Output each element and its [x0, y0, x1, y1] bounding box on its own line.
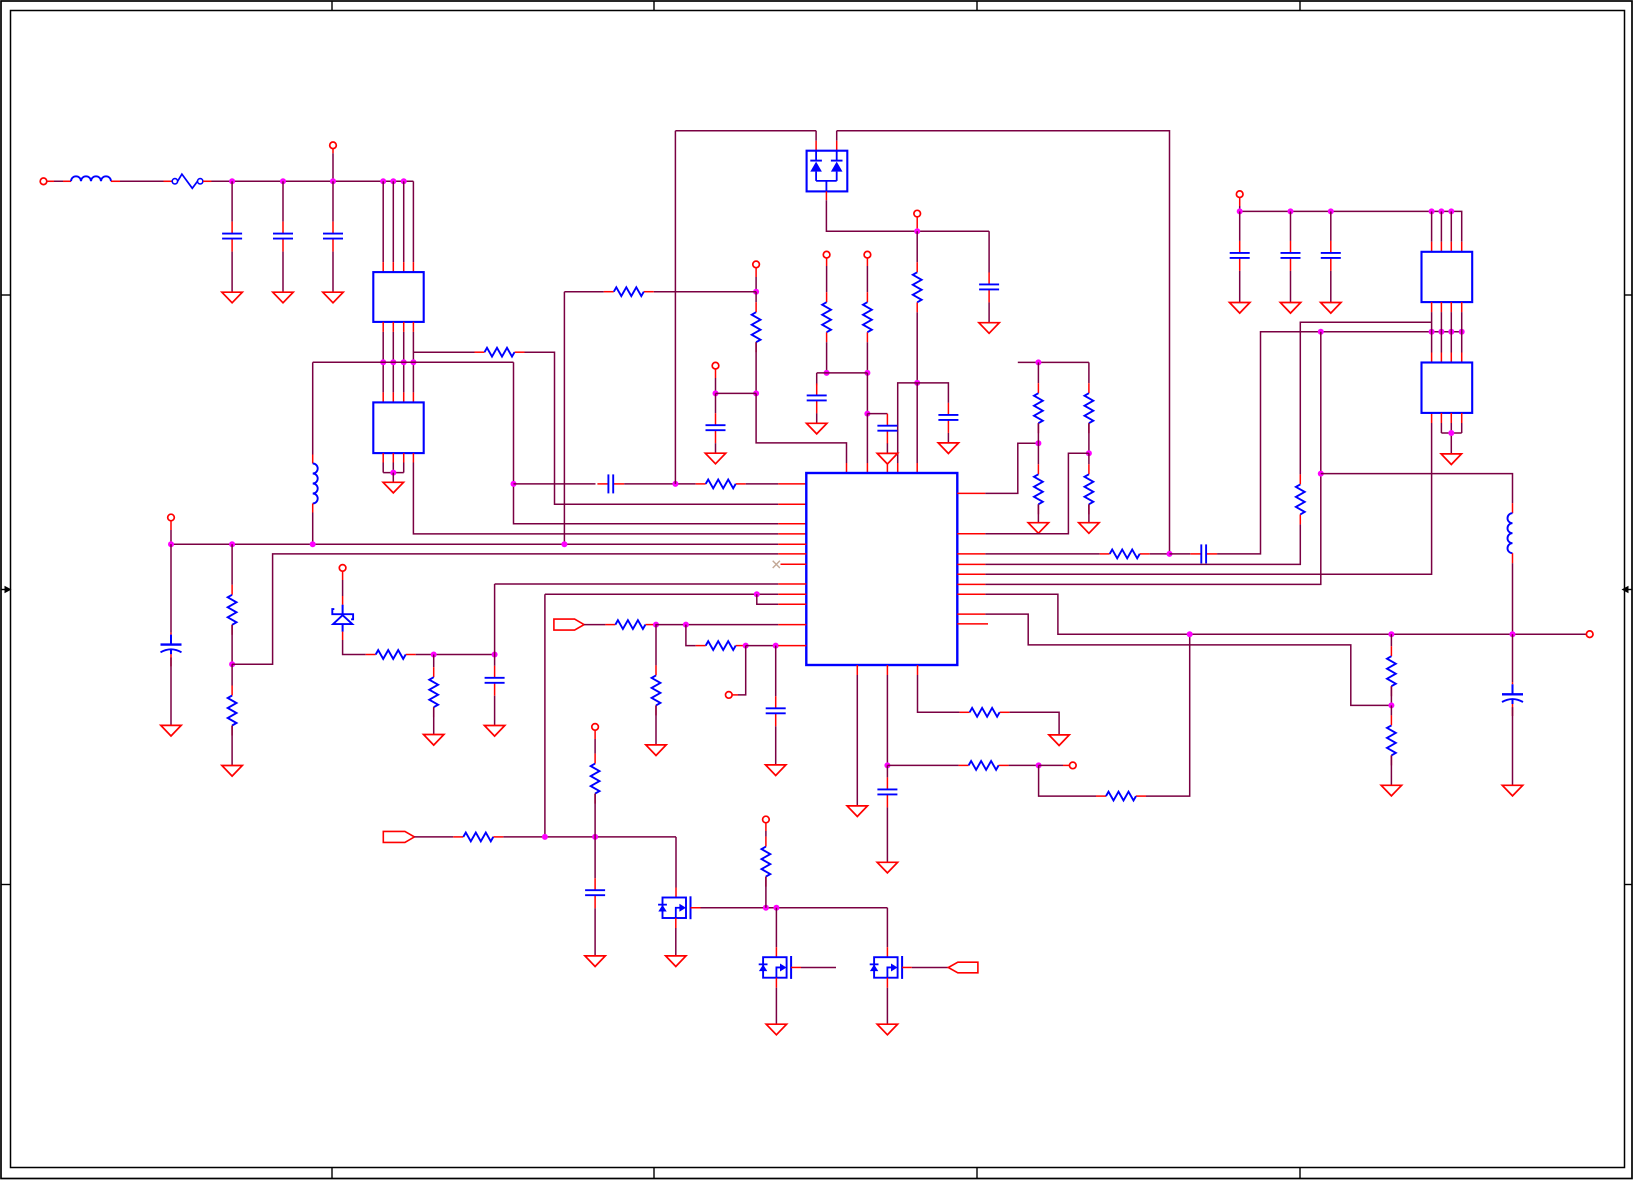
- junction bus362 pin2: [390, 359, 396, 365]
- wire net3 vertical: [514, 362, 779, 524]
- wire net1 riser: [674, 131, 676, 484]
- wire U1 top pin3: [403, 181, 405, 272]
- ground C14: [585, 956, 605, 967]
- terminal T9: [763, 816, 770, 823]
- terminal T2: [753, 261, 760, 268]
- wire bus VCC: [171, 543, 778, 545]
- pin red IC pin6: [778, 553, 806, 555]
- transistor Q1: [658, 896, 690, 919]
- terminal J2 VIN: [330, 142, 337, 149]
- ground C16: [1502, 785, 1522, 796]
- wire C11 upper: [494, 655, 496, 666]
- ground C18: [1280, 303, 1300, 314]
- pin red IC pin7R: [957, 593, 985, 595]
- pin red U4 pin4: [1461, 242, 1463, 252]
- resistor R4: [822, 292, 831, 342]
- wire IC top pin2: [866, 414, 868, 473]
- wire bus4R up: [1300, 322, 1431, 474]
- resistor R1: [475, 348, 525, 357]
- junction busVCC L2: [310, 541, 316, 547]
- wire P1 out: [414, 836, 453, 838]
- junction bus3: [1167, 551, 1173, 557]
- wire Q2 drain: [775, 908, 777, 957]
- junction U1 top pin3: [401, 178, 407, 184]
- resistor R10: [366, 650, 416, 659]
- transistor Q3: [870, 956, 902, 979]
- resistor R20: [762, 837, 771, 887]
- junction row654 b: [492, 652, 498, 658]
- wire U1-U2 pin3: [403, 322, 405, 403]
- wire U4-U5 pin3: [1450, 302, 1452, 362]
- wire U1-U2 pin1: [382, 322, 384, 403]
- junction VOUT b: [1388, 631, 1394, 637]
- wire bus3 d: [1217, 332, 1462, 554]
- junction bus331 e: [1459, 329, 1465, 335]
- wire T1 stub: [916, 217, 918, 229]
- wire R11 upper: [433, 655, 435, 668]
- junction net1 mid: [672, 481, 678, 487]
- resistor R27: [1387, 646, 1396, 696]
- wire U2 gnd stem: [392, 473, 394, 483]
- resistor R6: [604, 287, 654, 296]
- wire T2 stub: [755, 268, 757, 292]
- wire R9 lower: [231, 726, 233, 766]
- wire C3 lower: [332, 252, 334, 293]
- ground C9: [705, 453, 725, 464]
- wire row796: [1039, 765, 1096, 796]
- ground R24: [1079, 523, 1099, 534]
- wire U5 gnd bracket: [1441, 432, 1461, 434]
- wire bus6R: [985, 332, 1321, 585]
- inductor L3: [1508, 513, 1513, 553]
- wire R24 upper: [1088, 453, 1090, 464]
- resistor R26: [1296, 474, 1305, 524]
- wire R22 lower: [1037, 504, 1039, 522]
- wire Q3 gate: [902, 966, 948, 968]
- wire net1 a: [514, 483, 596, 485]
- junction U1 top pin2: [390, 178, 396, 184]
- wire T4 stub: [170, 521, 172, 545]
- capacitor C16 polarized: [1502, 682, 1523, 716]
- no-connect pin7: [773, 561, 807, 568]
- wire bus3 b: [1150, 553, 1170, 555]
- resistor R2: [696, 480, 746, 489]
- junction bus362 pin1: [380, 359, 386, 365]
- wire C1 upper: [231, 181, 233, 221]
- capacitor C1: [222, 222, 242, 252]
- wire C9 upper: [715, 393, 717, 413]
- wire C3 upper: [332, 181, 334, 221]
- resistor R9: [228, 686, 237, 736]
- port P1: [383, 831, 414, 842]
- filter module U4: [1422, 252, 1473, 302]
- ground R11: [424, 735, 444, 746]
- zener diode D2: [332, 605, 353, 632]
- capacitor C3: [323, 222, 343, 252]
- wire U1-U2 pin2: [392, 322, 394, 403]
- junction bus331 c: [1438, 329, 1444, 335]
- wire C18 upper: [1290, 211, 1292, 241]
- resistor R22: [1034, 464, 1043, 514]
- wire IC bot pin1: [856, 665, 858, 806]
- wire pin9 row: [545, 593, 778, 595]
- junction node R3: [914, 380, 920, 386]
- wire L3 lower: [1512, 563, 1514, 634]
- wire C10 lower: [170, 658, 172, 726]
- wire pin1R: [957, 443, 1038, 493]
- wire J2 stub: [332, 148, 334, 178]
- wire C1 lower: [231, 252, 233, 293]
- wire top rail left: [675, 130, 816, 132]
- wire R9 upper: [231, 664, 233, 685]
- pin red IC pin10: [778, 603, 806, 605]
- junction row654 a: [431, 652, 437, 658]
- ground C2: [273, 292, 293, 303]
- pin red J1: [47, 180, 54, 182]
- wire pin10 jog: [757, 594, 779, 604]
- junction gate row b: [773, 905, 779, 911]
- wire pin8 row2: [495, 583, 779, 585]
- junction U2 gnd: [390, 470, 396, 476]
- ground R9: [222, 766, 242, 777]
- wire input row b: [111, 180, 172, 182]
- pin red IC pin3: [778, 523, 806, 525]
- junction input-C3: [330, 178, 336, 184]
- diode pack D1: [807, 151, 848, 192]
- wire riser x564: [563, 292, 565, 545]
- junction row624 b: [683, 622, 689, 628]
- wire Q1 gate row: [691, 907, 888, 909]
- wire C5 upper: [988, 231, 990, 272]
- resistor R8: [228, 585, 237, 635]
- wire C2 lower: [282, 252, 284, 293]
- capacitor C11: [485, 666, 505, 696]
- junction bus362 pin3: [401, 359, 407, 365]
- pin red IC pin6R: [957, 583, 985, 585]
- resistor R11: [429, 667, 438, 717]
- pin red IC pin8R: [957, 613, 985, 615]
- wire IC bot pin2: [886, 665, 888, 765]
- wire D2 lower: [343, 632, 366, 655]
- resistor R5: [863, 292, 872, 342]
- pin red IC pin5: [778, 543, 806, 545]
- ground C12: [766, 765, 786, 776]
- wire C13 upper: [886, 765, 888, 777]
- ground C11: [484, 726, 504, 737]
- ground Q3: [877, 1024, 897, 1035]
- wire R8 upper: [231, 544, 233, 585]
- pin red L2 bottom: [312, 504, 314, 513]
- capacitor C19: [1321, 241, 1341, 271]
- wire row645 jog: [686, 625, 696, 646]
- wire R4 upper: [826, 258, 828, 292]
- wire U1 top pin4: [412, 181, 414, 272]
- wire U2 bottom pin x383.2: [382, 453, 384, 473]
- junction busVCC div: [229, 541, 235, 547]
- filter module U5: [1422, 363, 1473, 413]
- junction divA mid: [1035, 440, 1041, 446]
- border right arrow: [1622, 586, 1633, 593]
- wire C14 upper: [594, 837, 596, 878]
- capacitor C6: [938, 403, 958, 433]
- wire bus211: [1240, 211, 1462, 241]
- junction U5 gnd: [1448, 430, 1454, 436]
- capacitor C14: [585, 878, 605, 908]
- pin red IC pin2: [778, 503, 806, 505]
- junction row765: [1036, 762, 1042, 768]
- wire R23 lower: [1088, 423, 1090, 453]
- wire C7 upper: [816, 373, 818, 386]
- junction U1 top pin1: [380, 178, 386, 184]
- ground R28: [1381, 785, 1401, 796]
- ground C19: [1321, 303, 1341, 314]
- wire U4-U5 pin4: [1461, 302, 1463, 362]
- terminal T5: [339, 565, 346, 572]
- terminal R4: [823, 251, 830, 258]
- wire C16 upper: [1512, 634, 1514, 682]
- junction bus211 c: [1328, 208, 1334, 214]
- resistor R28: [1387, 715, 1396, 765]
- ground C1: [222, 292, 242, 303]
- junction bus211 a: [1237, 208, 1243, 214]
- resistor R24: [1085, 464, 1094, 514]
- junction T3: [713, 390, 719, 396]
- junction R5 node2: [864, 411, 870, 417]
- wire R5 upper: [866, 258, 868, 292]
- wire IC top pin4 branch: [898, 383, 918, 473]
- wire R4-R5 link: [817, 372, 868, 374]
- junction node473: [1318, 471, 1324, 477]
- ground R17: [1049, 735, 1069, 746]
- wire C6 lower: [947, 433, 949, 443]
- wire R21 lower: [1037, 423, 1039, 443]
- wire R19 lower: [594, 794, 596, 837]
- pin red F1 right: [203, 180, 211, 182]
- wire U4-U5 pin1: [1431, 302, 1433, 362]
- wire T7 link: [1039, 764, 1070, 766]
- pin red IC pin4: [778, 533, 806, 535]
- wire U5 bot pin x1441.4: [1440, 413, 1442, 433]
- wire C2 upper: [282, 181, 284, 221]
- ground C13: [877, 862, 897, 873]
- ground Q1: [666, 956, 686, 967]
- resistor R7: [752, 302, 761, 352]
- wire C17 lower: [1239, 271, 1241, 303]
- wire bus3 a: [985, 553, 1099, 555]
- no-connect stub pin9R: [957, 623, 988, 625]
- junction row624 a: [653, 622, 659, 628]
- resistor R21: [1034, 383, 1043, 433]
- wire input row c: [203, 180, 413, 182]
- resistor R14: [696, 641, 746, 650]
- filter module U2: [373, 402, 423, 453]
- wire C18 lower: [1290, 271, 1292, 303]
- junction pin9-pin10: [754, 591, 760, 597]
- capacitor C8: [877, 414, 897, 444]
- wire U1 top pin1: [382, 181, 384, 272]
- wire R3 lower: [916, 312, 918, 383]
- resistor R18: [453, 833, 503, 842]
- ground C10: [161, 725, 181, 736]
- ground C7: [807, 423, 827, 434]
- wire T6 link: [732, 646, 746, 695]
- pin red IC pin9: [778, 593, 806, 595]
- junction divB mid: [1086, 450, 1092, 456]
- wire row624: [655, 624, 778, 626]
- wire U2 bottom pin x403.7: [403, 453, 405, 473]
- wire net1 c: [746, 483, 779, 485]
- wire C8 lower: [886, 443, 888, 453]
- wire Q3 drain: [886, 908, 888, 957]
- junction busVCC x564: [561, 541, 567, 547]
- junction VOUT a: [1187, 631, 1193, 637]
- terminal T11: [1236, 191, 1243, 198]
- terminal T10 VOUT: [1586, 631, 1593, 638]
- wire row352 left: [413, 351, 474, 353]
- wire row765 b: [1009, 764, 1039, 766]
- wire U4 top pin1: [1431, 211, 1433, 251]
- wire IC bot pin3: [918, 665, 960, 712]
- junction busVCC T4: [168, 541, 174, 547]
- junction row645 b: [773, 643, 779, 649]
- wire T11 stub: [1239, 197, 1241, 211]
- junction bus211 f: [1448, 208, 1454, 214]
- wire T5 stub: [342, 571, 344, 605]
- ground Q2: [766, 1024, 786, 1035]
- pin red L2 top: [312, 455, 314, 464]
- wire R7 lower: [755, 342, 757, 393]
- wire U2 pin4 down: [413, 453, 778, 534]
- pin red IC pin12: [778, 645, 806, 647]
- junction R4 node: [824, 370, 830, 376]
- border left arrow: [1, 586, 12, 593]
- wire C12 lower: [775, 726, 777, 765]
- wire R13 upper: [655, 625, 657, 666]
- wire row796 b: [1146, 634, 1190, 796]
- wire Q3 source: [886, 978, 888, 1024]
- wire R7 upper: [755, 292, 757, 303]
- terminal R5: [864, 251, 871, 258]
- junction SW node: [884, 762, 890, 768]
- wire U4-U5 pin2: [1440, 302, 1442, 362]
- wire top rail right: [837, 131, 1170, 554]
- fuse F1: [172, 174, 203, 188]
- wire C10 upper: [170, 544, 172, 632]
- junction gate row a: [763, 905, 769, 911]
- capacitor C15 series: [1190, 544, 1217, 563]
- pin red IC pin11: [778, 624, 806, 626]
- wire C17 upper: [1239, 211, 1241, 241]
- wire R22 upper: [1037, 443, 1039, 464]
- wire C8 branch: [867, 413, 887, 415]
- wire C16 lower: [1512, 707, 1514, 785]
- wire R20 lower: [765, 877, 767, 908]
- pin red IC pin8: [778, 583, 806, 585]
- wire R27 lower: [1390, 686, 1392, 705]
- pin red IC pin3R: [957, 553, 985, 555]
- junction R7 node: [753, 390, 759, 396]
- junction net1-net3: [511, 481, 517, 487]
- wire R8 lower: [231, 625, 233, 665]
- wire R3 upper: [916, 231, 918, 262]
- wire R6 row right: [654, 291, 756, 293]
- wire D1 out: [826, 191, 989, 231]
- wire R4 lower: [826, 342, 828, 373]
- junction row645 a: [743, 643, 749, 649]
- pin red IC pin1: [778, 483, 806, 485]
- junction bus211 d: [1429, 208, 1435, 214]
- wire C19 upper: [1330, 211, 1332, 241]
- wire P2 out: [584, 624, 605, 626]
- terminal T4: [168, 514, 175, 521]
- wire C7 lower: [816, 413, 818, 423]
- junction VOUT c: [1510, 631, 1516, 637]
- resistor R13: [652, 665, 661, 715]
- pin red IC top pin3: [886, 464, 888, 473]
- junction row837 b: [592, 834, 598, 840]
- wire row712 b: [1010, 712, 1060, 735]
- resistor R19: [591, 754, 600, 804]
- wire R23 upper: [1088, 362, 1090, 383]
- wire D1 pin2: [836, 131, 838, 151]
- wire T3-R7 link: [716, 392, 757, 394]
- wire C5 lower: [988, 302, 990, 322]
- junction R5 node: [864, 370, 870, 376]
- wire U1-U2 pin4: [412, 322, 414, 403]
- junction input-C2: [280, 178, 286, 184]
- capacitor C17: [1230, 241, 1250, 271]
- wire U1 top pin2: [392, 181, 394, 272]
- junction R27-R28: [1388, 702, 1394, 708]
- wire C9 lower: [715, 443, 717, 453]
- resistor R12: [605, 620, 655, 629]
- junction bus211 e: [1438, 208, 1444, 214]
- wire Q1 source: [675, 918, 677, 956]
- wire bus4R: [985, 524, 1300, 564]
- junction bus331 d: [1448, 329, 1454, 335]
- inductor L2: [313, 464, 318, 504]
- wire RT stub: [594, 730, 596, 754]
- resistor R15: [959, 761, 1009, 770]
- junction bus331 a: [1318, 329, 1324, 335]
- wire R27 upper: [1390, 634, 1392, 646]
- port P3: [948, 962, 978, 973]
- transistor Q2: [759, 956, 791, 979]
- pin red L3 top: [1512, 503, 1514, 513]
- wire C11 lower: [494, 696, 496, 726]
- wire IC top pin1: [756, 393, 846, 473]
- ground R22: [1028, 523, 1048, 534]
- wire C6 branch: [917, 383, 948, 403]
- wire row765 a: [887, 764, 958, 766]
- terminal T7: [1070, 762, 1077, 769]
- wire Q2 source: [775, 978, 777, 1024]
- ground C5: [979, 323, 999, 334]
- capacitor C7: [807, 383, 827, 413]
- wire row645: [746, 645, 779, 647]
- wire R28 lower: [1390, 755, 1392, 785]
- wire R24 lower: [1088, 504, 1090, 522]
- ground C8: [877, 453, 897, 464]
- filter module U1: [373, 272, 423, 322]
- wire row654: [416, 654, 495, 656]
- wire L2 upper: [312, 362, 314, 454]
- ground C3: [323, 292, 343, 303]
- wire bus5R: [985, 413, 1431, 574]
- resistor R25: [1100, 550, 1150, 559]
- wire pin8 row: [494, 584, 496, 655]
- wire C19 lower: [1330, 271, 1332, 303]
